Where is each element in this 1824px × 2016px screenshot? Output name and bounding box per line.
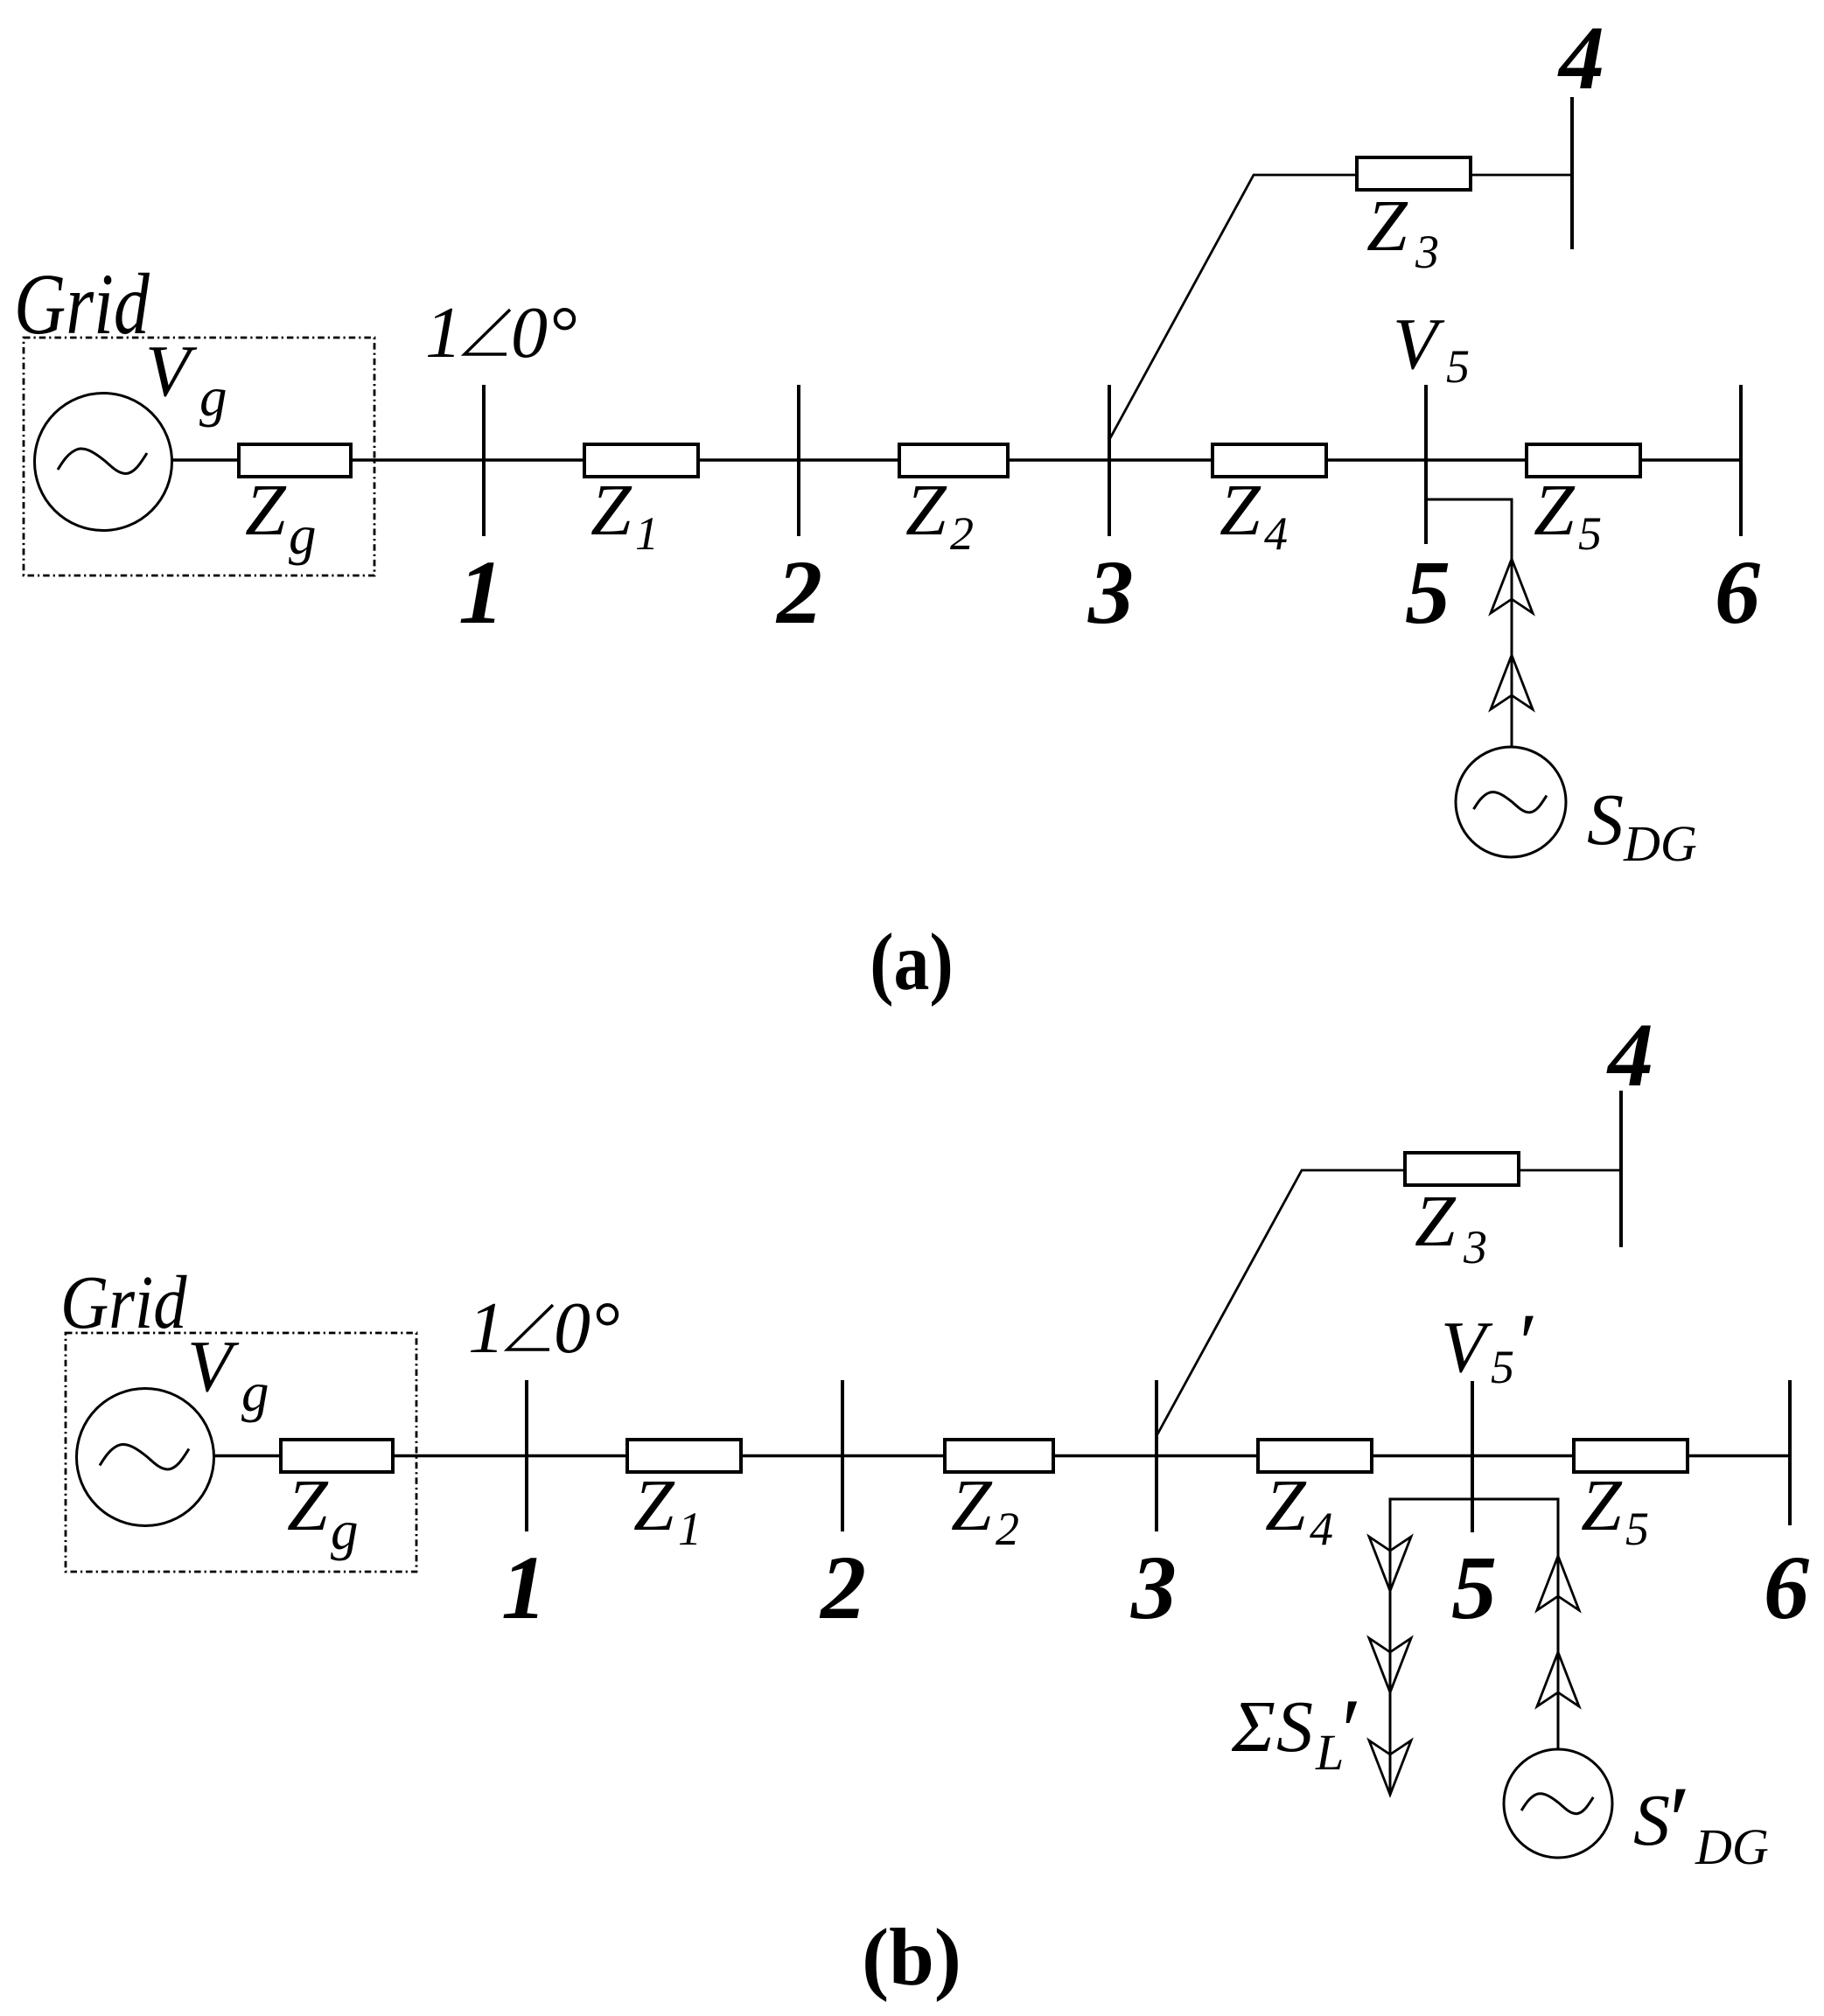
svg-text:4: 4 — [1264, 507, 1288, 560]
impedance Z2 (b) — [945, 1440, 1053, 1472]
svg-text:Z: Z — [1581, 1465, 1623, 1546]
svg-text:2: 2 — [819, 1538, 866, 1638]
svg-text:1: 1 — [458, 542, 504, 643]
svg-text:V: V — [1393, 303, 1445, 385]
arrowhead down 2 on load feeder (b) — [1369, 1638, 1411, 1692]
bus 6 (b) — [1788, 1380, 1792, 1525]
svg-text:Z: Z — [287, 1465, 329, 1546]
svg-text:3: 3 — [1130, 1538, 1177, 1638]
label Z3 (b) — [1415, 1181, 1487, 1273]
label Zg (a) — [245, 470, 317, 566]
svg-text:(b): (b) — [862, 1913, 961, 2003]
svg-text:2: 2 — [996, 1503, 1019, 1555]
svg-text:5: 5 — [1451, 1538, 1497, 1638]
label Z4 (b) — [1265, 1465, 1333, 1555]
svg-text:Z: Z — [1534, 470, 1576, 551]
wire: DG tap at bus 5 (a) — [1426, 499, 1512, 748]
svg-text:g: g — [289, 505, 317, 566]
svg-text:Z: Z — [951, 1465, 993, 1546]
impedance Z3 (b) — [1405, 1153, 1519, 1185]
arrowhead up 1 on DG feed (b) — [1537, 1556, 1579, 1610]
impedance Z2 (a) — [899, 444, 1008, 477]
svg-text:1: 1 — [635, 507, 659, 560]
impedance Z1 (b) — [627, 1440, 741, 1472]
svg-text:Σ: Σ — [1231, 1686, 1275, 1768]
impedance Z1 (a) — [584, 444, 698, 477]
svg-text:3: 3 — [1087, 542, 1134, 643]
svg-text:2: 2 — [950, 507, 974, 560]
svg-text:Z: Z — [905, 470, 947, 551]
impedance Zg (a) — [239, 444, 351, 477]
svg-text:Z: Z — [1366, 185, 1408, 267]
wire: branch bus3 to Z3 to bus4 (b) — [1157, 1170, 1621, 1434]
bus 6 (a) — [1739, 385, 1743, 536]
impedance Z5 (a) — [1527, 444, 1640, 477]
wire: main feeder diagram (a) — [170, 458, 1741, 461]
label Z1 (a) — [591, 470, 659, 560]
svg-text:6: 6 — [1764, 1538, 1809, 1638]
source SDG circle (a) — [1456, 747, 1566, 857]
svg-text:Grid: Grid — [14, 255, 150, 352]
wire: main feeder diagram (b) — [212, 1454, 1790, 1457]
voltage source Vg (grid source circle) (b) — [77, 1389, 214, 1526]
svg-text:Z: Z — [633, 1465, 675, 1546]
svg-text:4: 4 — [1557, 8, 1604, 108]
bus 5 (a) — [1424, 385, 1428, 544]
svg-text:6: 6 — [1715, 542, 1760, 643]
svg-text:g: g — [199, 366, 227, 428]
svg-text:4: 4 — [1606, 1005, 1653, 1106]
label V5 (a) — [1393, 303, 1470, 393]
svg-text:V: V — [187, 1326, 240, 1407]
svg-text:1: 1 — [678, 1503, 702, 1555]
label 1 angle 0 deg (a) — [425, 292, 577, 373]
svg-text:5: 5 — [1405, 542, 1450, 643]
svg-text:1: 1 — [468, 1287, 505, 1369]
bus 2 (a) — [797, 385, 800, 536]
svg-text:Z: Z — [1265, 1465, 1307, 1546]
label Z5 (b) — [1581, 1465, 1649, 1555]
svg-text:1: 1 — [425, 292, 462, 373]
impedance Zg (b) — [281, 1440, 393, 1472]
svg-text:′: ′ — [1514, 1296, 1534, 1389]
label Vg (b) — [187, 1326, 269, 1423]
svg-text:Z: Z — [245, 470, 287, 551]
label Vg (a) — [145, 331, 227, 428]
svg-text:Z: Z — [1219, 470, 1261, 551]
svg-text:5: 5 — [1578, 507, 1602, 560]
label Z5 (a) — [1534, 470, 1602, 560]
impedance Z5 (b) — [1574, 1440, 1688, 1472]
svg-text:′: ′ — [1336, 1679, 1358, 1782]
node Grid enclosure (dash-dot box) (b) — [66, 1333, 416, 1572]
label sum SL prime (load) (b) — [1231, 1679, 1358, 1782]
label Z2 (b) — [951, 1465, 1019, 1555]
label SDG (a) — [1587, 779, 1697, 872]
arrowhead down 1 on load feeder (b) — [1369, 1537, 1411, 1591]
svg-text:V: V — [145, 331, 198, 412]
svg-text:g: g — [331, 1500, 359, 1561]
svg-text:Z: Z — [591, 470, 632, 551]
source SDG prime circle (b) — [1504, 1749, 1612, 1858]
bus 2 (b) — [841, 1380, 844, 1531]
svg-text:0°: 0° — [511, 292, 577, 373]
label Z3 (a) — [1366, 185, 1439, 278]
arrowhead up 1 on DG feed (a) — [1491, 559, 1533, 613]
label Z4 (a) — [1219, 470, 1288, 560]
bus 1 (a) — [482, 385, 486, 536]
svg-text:′: ′ — [1663, 1767, 1686, 1875]
arrowhead up 2 on DG feed (a) — [1491, 655, 1533, 709]
svg-text:5: 5 — [1491, 1341, 1514, 1393]
wire: load and DG tap at bus 5 (b) — [1390, 1499, 1558, 1795]
label S prime DG (b) — [1633, 1767, 1769, 1875]
svg-text:3: 3 — [1463, 1221, 1487, 1273]
impedance Z4 (a) — [1213, 444, 1326, 477]
svg-text:V: V — [1441, 1307, 1493, 1388]
label Zg (b) — [287, 1465, 359, 1561]
bus 1 (b) — [525, 1380, 528, 1531]
label Z2 (a) — [905, 470, 974, 560]
label Z1 (b) — [633, 1465, 702, 1555]
svg-text:5: 5 — [1625, 1503, 1649, 1555]
label V5 prime (b) — [1441, 1296, 1534, 1393]
node Grid enclosure (dash-dot box) (a) — [24, 338, 374, 576]
label 1 angle 0 deg (b) — [468, 1287, 620, 1369]
arrowhead up 2 on DG feed (b) — [1537, 1652, 1579, 1706]
bus 5 (b) — [1471, 1381, 1474, 1532]
svg-text:Z: Z — [1415, 1181, 1457, 1262]
bus 3 (b) — [1155, 1380, 1158, 1531]
impedance Z4 (b) — [1258, 1440, 1372, 1472]
svg-text:S: S — [1587, 779, 1624, 861]
svg-text:3: 3 — [1415, 226, 1439, 278]
voltage source Vg (grid source circle) (a) — [35, 394, 172, 531]
svg-text:DG: DG — [1623, 815, 1697, 872]
svg-text:g: g — [241, 1362, 269, 1423]
svg-text:DG: DG — [1695, 1818, 1769, 1875]
svg-text:5: 5 — [1446, 340, 1470, 393]
bus 4 (b) — [1619, 1091, 1623, 1247]
svg-text:2: 2 — [775, 542, 822, 643]
arrowhead down 3 on load feeder (b) — [1369, 1740, 1411, 1795]
svg-text:0°: 0° — [554, 1287, 620, 1369]
bus 4 (a) — [1570, 97, 1574, 249]
svg-text:(a): (a) — [870, 917, 953, 1007]
impedance Z3 (a) — [1357, 157, 1471, 190]
wire: branch bus3 to Z3 to bus4 (a) — [1110, 175, 1572, 438]
bus 3 (a) — [1108, 385, 1111, 536]
svg-text:4: 4 — [1310, 1503, 1333, 1555]
svg-text:Grid: Grid — [60, 1259, 187, 1344]
svg-text:1: 1 — [501, 1538, 547, 1638]
svg-text:S: S — [1276, 1686, 1313, 1768]
